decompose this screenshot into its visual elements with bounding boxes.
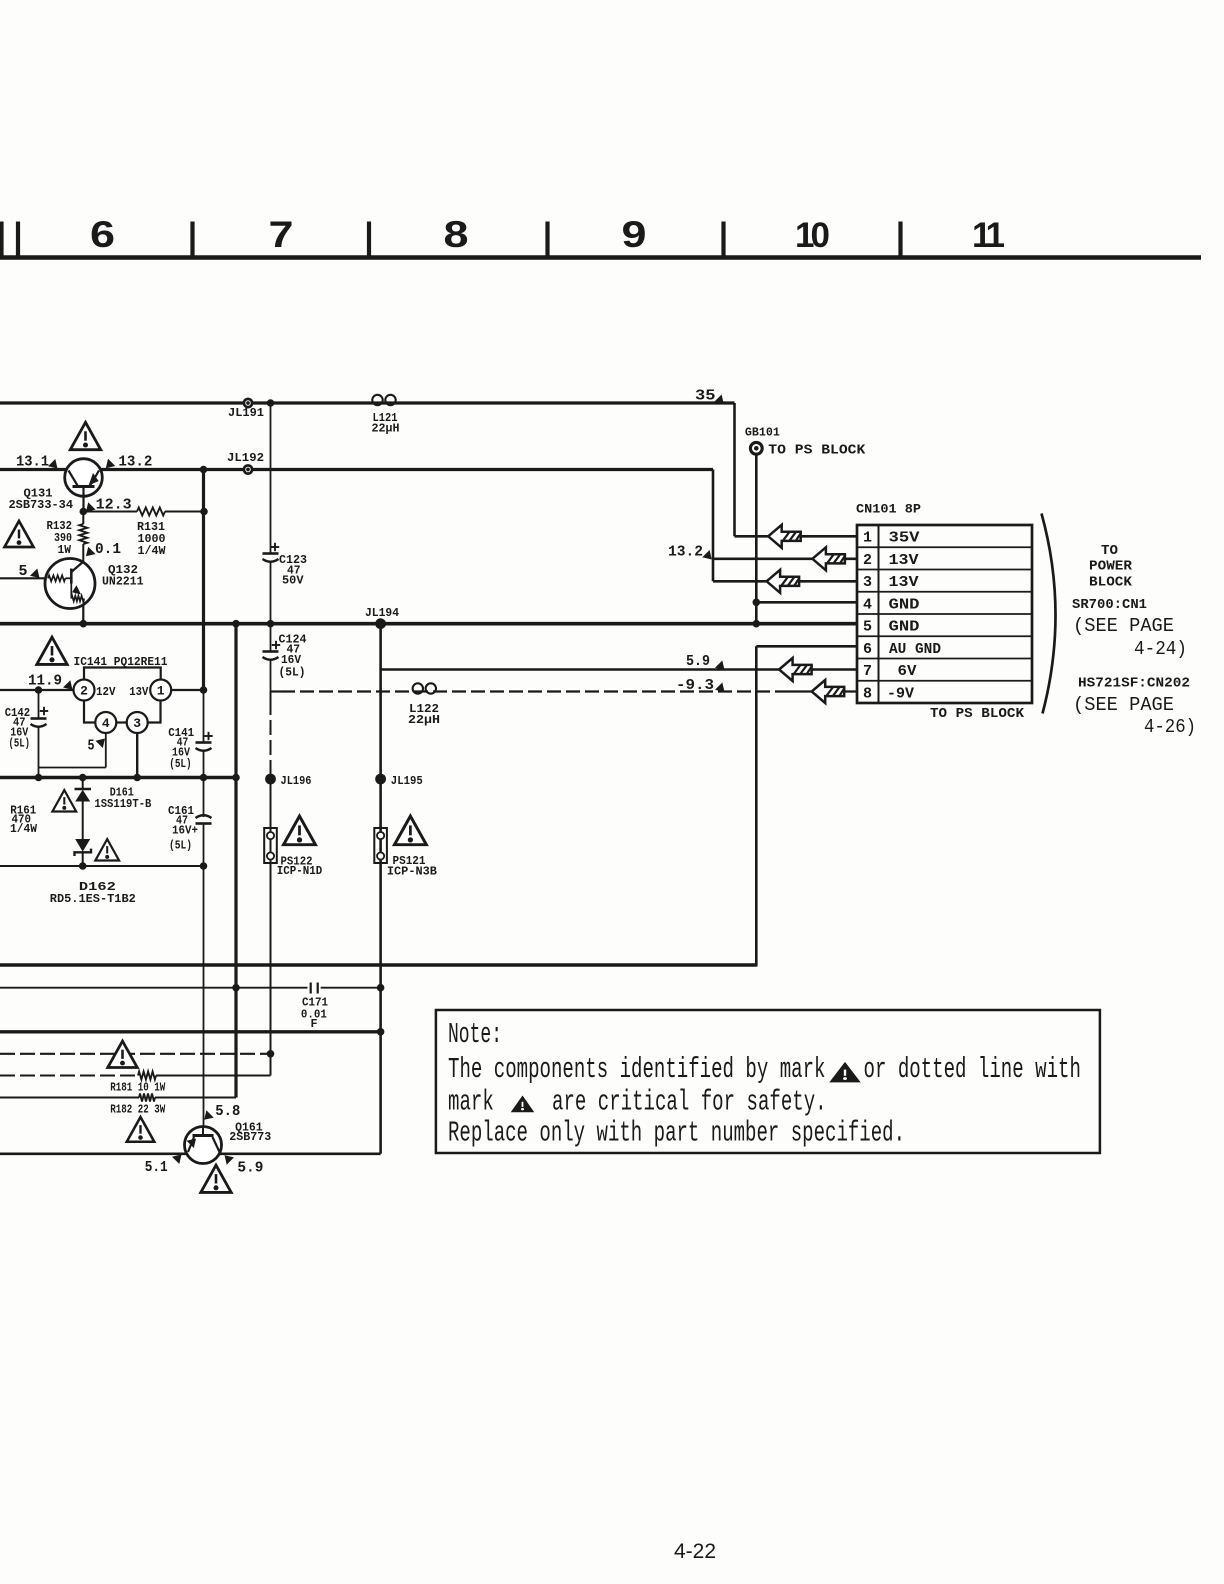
svg-text:5: 5	[863, 619, 872, 636]
svg-text:13.2: 13.2	[668, 544, 703, 561]
svg-text:6: 6	[90, 214, 115, 255]
svg-text:TO PS BLOCK: TO PS BLOCK	[768, 443, 866, 459]
svg-text:JL196: JL196	[281, 774, 312, 788]
svg-text:2SB733-34: 2SB733-34	[9, 498, 74, 512]
svg-text:ICP-N3B: ICP-N3B	[387, 865, 437, 879]
svg-text:12.3: 12.3	[96, 497, 132, 514]
svg-text:11: 11	[972, 216, 1005, 255]
svg-text:5.8: 5.8	[215, 1103, 240, 1120]
svg-text:Note:: Note:	[448, 1018, 502, 1051]
svg-text:1SS119T-B: 1SS119T-B	[94, 797, 151, 811]
svg-text:2: 2	[863, 552, 872, 569]
svg-text:(5L): (5L)	[169, 839, 192, 853]
svg-text:1: 1	[157, 684, 165, 699]
svg-text:5: 5	[19, 563, 28, 580]
svg-text:4-24): 4-24)	[1134, 638, 1187, 660]
svg-text:22µH: 22µH	[408, 713, 440, 727]
svg-text:6V: 6V	[898, 663, 917, 680]
svg-text:5.9: 5.9	[237, 1160, 263, 1177]
svg-text:4-22: 4-22	[674, 1540, 716, 1563]
svg-text:13V: 13V	[889, 552, 919, 569]
svg-text:22µH: 22µH	[372, 422, 400, 436]
svg-text:7: 7	[269, 214, 294, 255]
svg-text:35: 35	[695, 388, 716, 405]
svg-text:5: 5	[88, 738, 95, 755]
svg-text:1: 1	[863, 530, 872, 547]
svg-text:or dotted line with: or dotted line with	[864, 1053, 1081, 1086]
svg-text:2SB773: 2SB773	[229, 1130, 271, 1144]
svg-text:JL194: JL194	[365, 606, 399, 620]
svg-text:(5L): (5L)	[279, 666, 306, 680]
svg-text:The components identified by m: The components identified by mark	[448, 1053, 826, 1086]
svg-text:(SEE PAGE: (SEE PAGE	[1073, 694, 1174, 716]
svg-text:4-26): 4-26)	[1144, 716, 1196, 738]
svg-text:JL195: JL195	[391, 774, 423, 788]
svg-text:(5L): (5L)	[169, 757, 192, 771]
svg-text:1W: 1W	[58, 543, 72, 557]
svg-text:HS721SF:CN202: HS721SF:CN202	[1078, 676, 1190, 692]
svg-text:6: 6	[863, 641, 872, 658]
svg-text:TO PS BLOCK: TO PS BLOCK	[930, 706, 1025, 722]
svg-text:-9V: -9V	[887, 685, 914, 702]
svg-text:GND: GND	[889, 596, 920, 613]
svg-text:5.1: 5.1	[145, 1159, 168, 1176]
svg-text:ICP-N1D: ICP-N1D	[277, 864, 323, 878]
svg-text:7: 7	[863, 663, 872, 680]
svg-text:IC141 PQ12RE11: IC141 PQ12RE11	[74, 655, 168, 669]
svg-text:50V: 50V	[282, 574, 304, 588]
svg-text:are critical for safety.: are critical for safety.	[552, 1085, 827, 1118]
svg-text:3: 3	[133, 716, 141, 731]
svg-text:R181 10 1W: R181 10 1W	[110, 1081, 166, 1095]
svg-text:0.1: 0.1	[95, 541, 121, 558]
svg-text:35V: 35V	[889, 530, 920, 547]
svg-text:JL191: JL191	[228, 406, 264, 420]
svg-text:(5L): (5L)	[9, 737, 31, 751]
svg-text:mark: mark	[448, 1085, 494, 1118]
svg-text:9: 9	[622, 214, 647, 255]
svg-text:13.2: 13.2	[118, 454, 152, 471]
svg-text:12V: 12V	[96, 685, 116, 699]
svg-text:POWER: POWER	[1089, 559, 1133, 575]
svg-text:GB101: GB101	[745, 426, 780, 440]
svg-text:GND: GND	[889, 619, 920, 636]
svg-text:13V: 13V	[129, 685, 149, 699]
svg-text:16V+: 16V+	[172, 824, 198, 838]
svg-text:Replace only with part number: Replace only with part number specified.	[448, 1116, 905, 1149]
svg-text:5.9: 5.9	[686, 653, 710, 670]
svg-text:SR700:CN1: SR700:CN1	[1072, 597, 1147, 613]
svg-text:8: 8	[444, 214, 469, 255]
svg-text:2: 2	[80, 684, 88, 699]
svg-text:3: 3	[863, 574, 872, 591]
svg-text:4: 4	[863, 596, 872, 613]
svg-text:13.1: 13.1	[16, 454, 49, 471]
svg-text:8: 8	[863, 685, 872, 702]
svg-text:11.9: 11.9	[28, 673, 62, 690]
svg-text:TO: TO	[1101, 543, 1118, 559]
svg-text:-9.3: -9.3	[676, 677, 714, 694]
svg-text:R182 22 3W: R182 22 3W	[110, 1103, 166, 1117]
svg-text:CN101 8P: CN101 8P	[856, 502, 921, 517]
svg-text:RD5.1ES-T1B2: RD5.1ES-T1B2	[50, 892, 136, 906]
svg-text:AU GND: AU GND	[889, 641, 941, 658]
svg-text:JL192: JL192	[227, 451, 264, 465]
svg-text:BLOCK: BLOCK	[1089, 575, 1133, 591]
svg-text:1/4W: 1/4W	[10, 822, 38, 836]
svg-text:13V: 13V	[889, 574, 919, 591]
svg-text:1/4W: 1/4W	[138, 544, 167, 558]
svg-text:(SEE PAGE: (SEE PAGE	[1073, 615, 1174, 637]
svg-text:10: 10	[795, 216, 829, 255]
svg-text:F: F	[311, 1017, 318, 1031]
svg-text:4: 4	[102, 716, 110, 731]
svg-text:UN2211: UN2211	[102, 575, 144, 589]
